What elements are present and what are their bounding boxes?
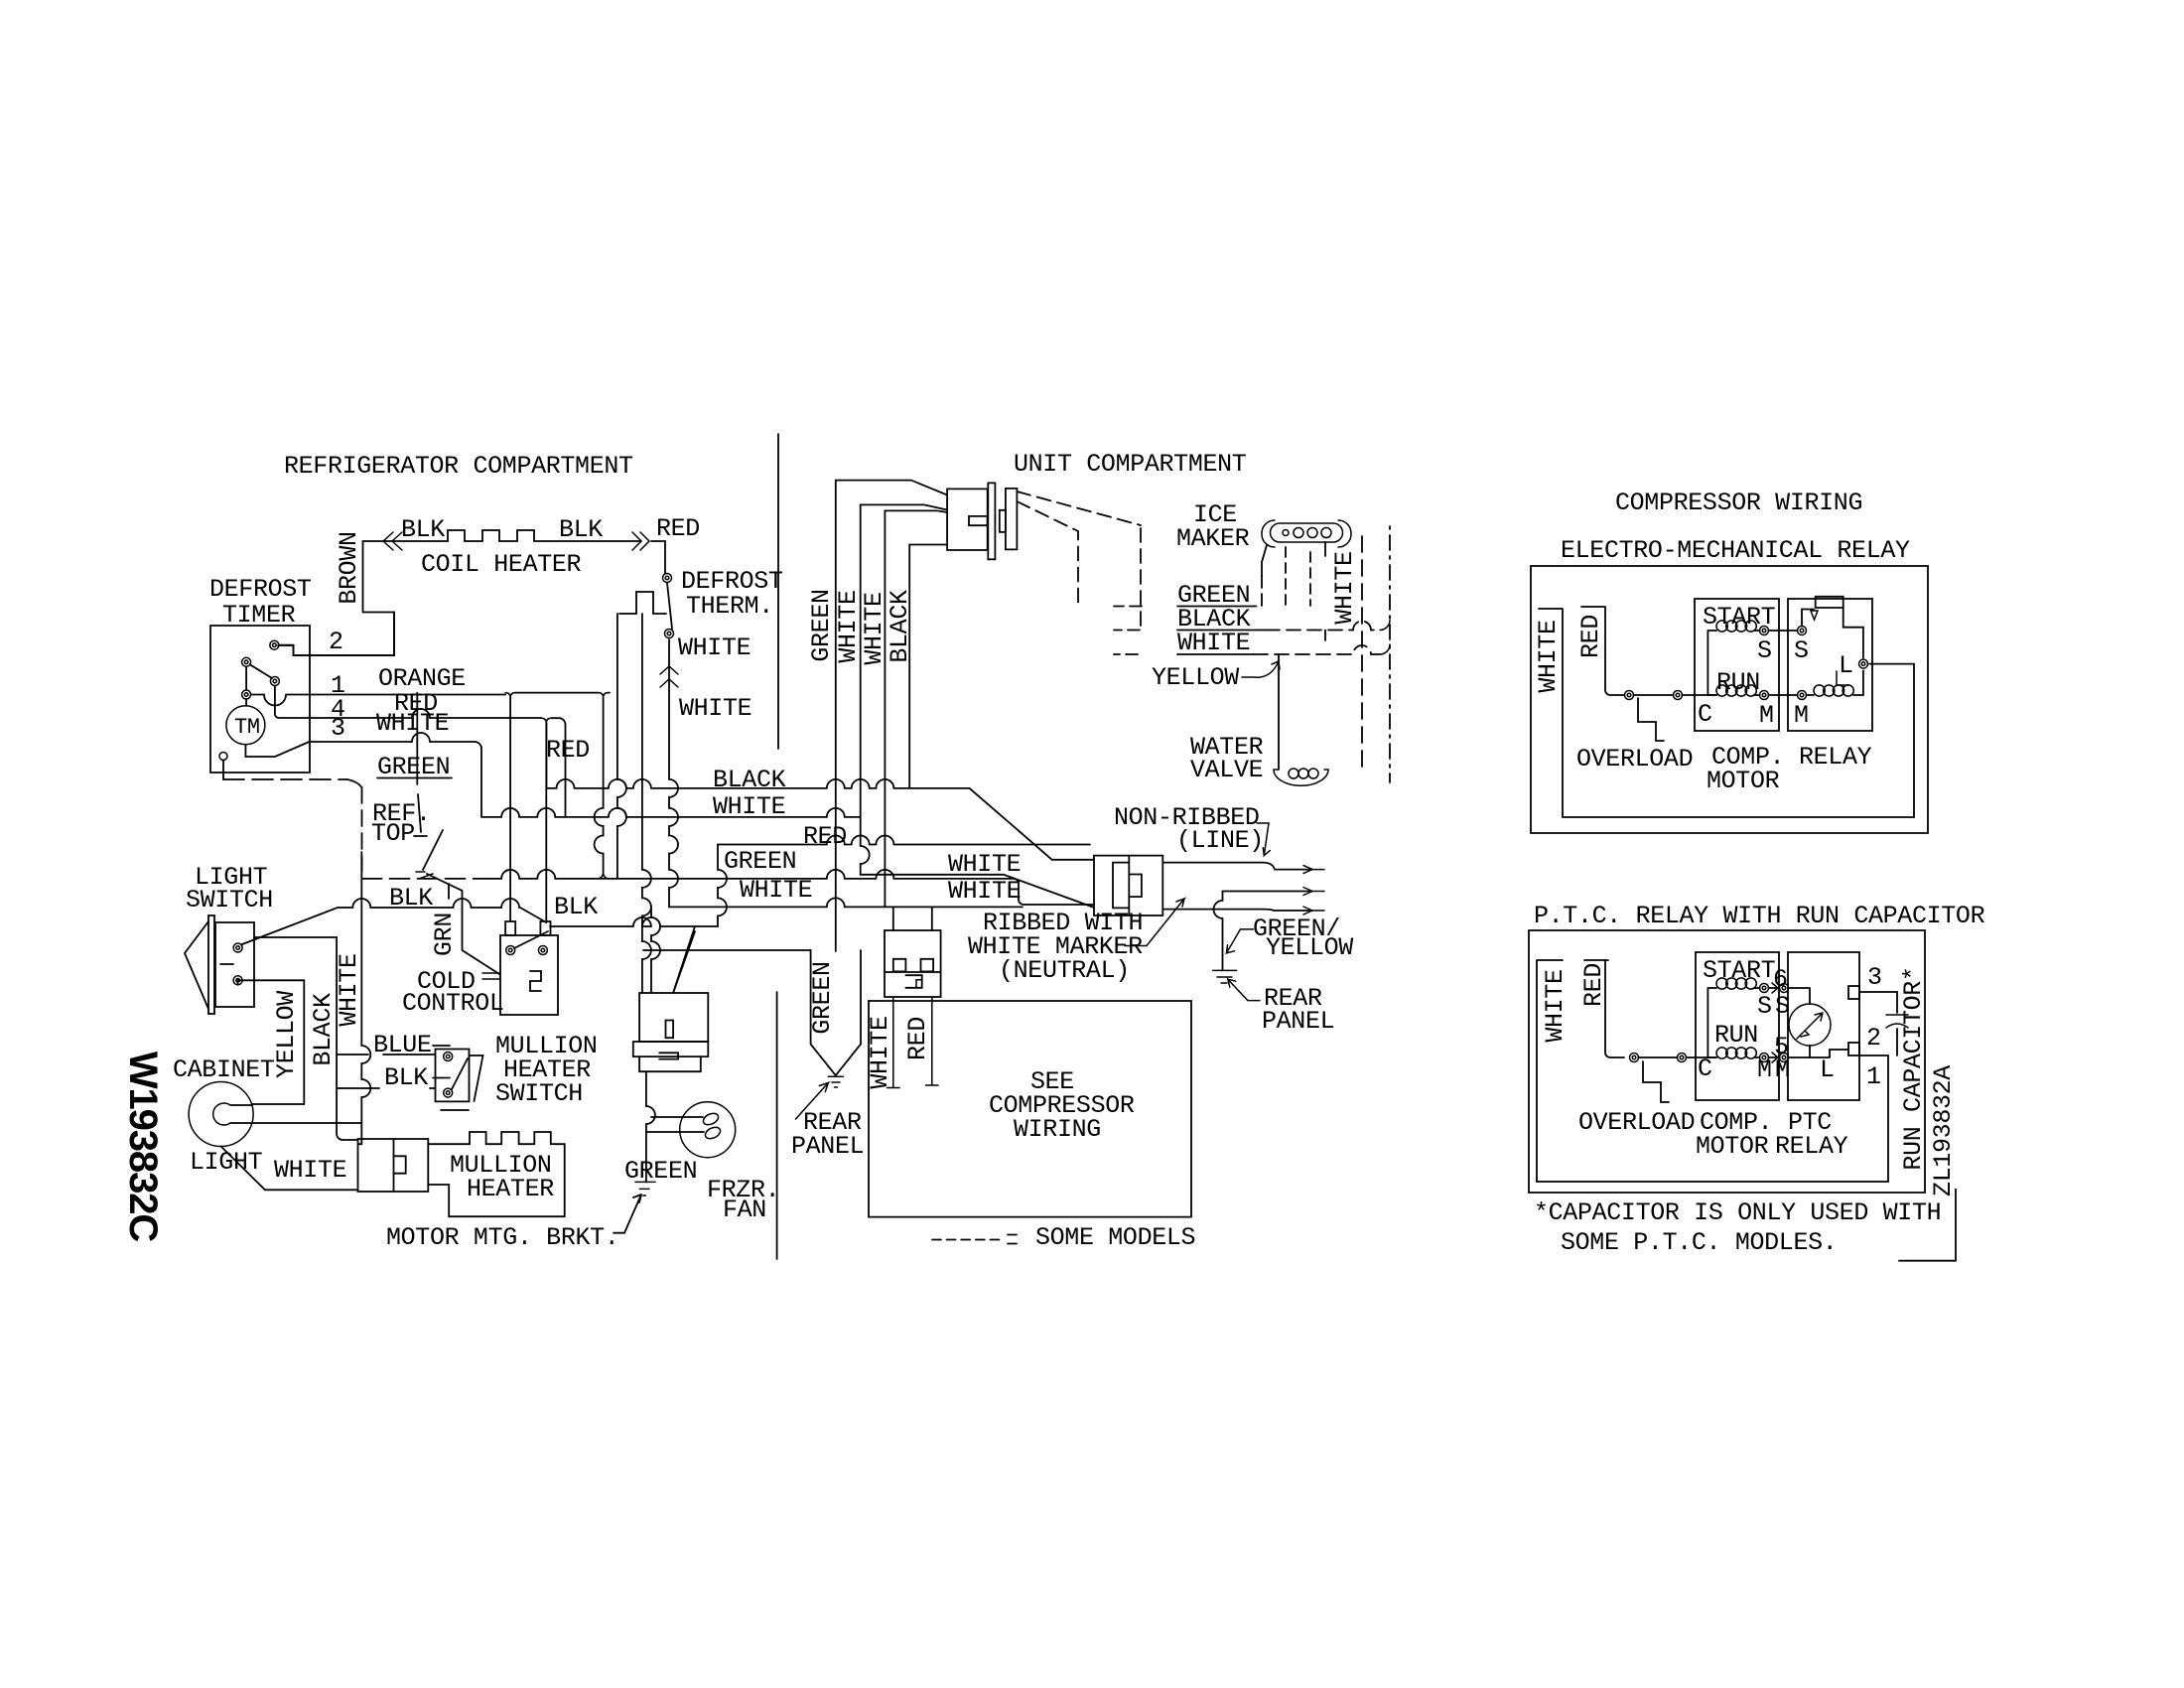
svg-text:M: M [1759,701,1774,730]
svg-text:RUN: RUN [1714,1021,1758,1050]
svg-text:3: 3 [1867,963,1882,992]
svg-text:DEFROST: DEFROST [209,575,312,604]
svg-text:ZL193832A: ZL193832A [1929,1065,1958,1196]
svg-text:GREEN: GREEN [624,1157,697,1186]
svg-text:COIL HEATER: COIL HEATER [421,550,582,579]
svg-text:SOME P.T.C. MODLES.: SOME P.T.C. MODLES. [1561,1228,1837,1257]
svg-text:FAN: FAN [723,1196,766,1224]
svg-text:BLK: BLK [401,515,445,544]
svg-text:GREEN: GREEN [724,847,796,876]
svg-text:WHITE: WHITE [1541,969,1570,1042]
svg-text:2: 2 [329,628,343,656]
svg-text:RED: RED [1576,615,1605,658]
svg-text:2: 2 [1866,1024,1881,1053]
svg-text:HEATER: HEATER [467,1175,554,1203]
svg-text:ELECTRO-MECHANICAL RELAY: ELECTRO-MECHANICAL RELAY [1561,536,1910,565]
svg-text:(NEUTRAL): (NEUTRAL) [999,956,1130,985]
svg-text:VALVE: VALVE [1190,756,1263,784]
svg-text:BLK: BLK [554,893,598,921]
svg-text:SOME MODELS: SOME MODELS [1035,1223,1195,1252]
svg-text:1: 1 [1866,1062,1881,1091]
svg-text:THERM.: THERM. [686,592,773,621]
svg-text:RUN CAPACITOR*: RUN CAPACITOR* [1899,966,1928,1170]
svg-text:TM: TM [234,715,260,740]
svg-text:(LINE): (LINE) [1176,826,1264,855]
svg-text:PANEL: PANEL [791,1132,864,1161]
svg-text:BLK: BLK [384,1063,428,1092]
svg-text:GREEN: GREEN [807,589,836,661]
svg-text:TOP: TOP [371,819,415,848]
svg-text:P.T.C. RELAY WITH RUN CAPACITO: P.T.C. RELAY WITH RUN CAPACITOR [1534,902,1985,930]
svg-text:S: S [1757,992,1772,1021]
svg-text:REFRIGERATOR COMPARTMENT: REFRIGERATOR COMPARTMENT [284,452,633,481]
svg-text:GRN: GRN [430,913,459,956]
svg-text:YELLOW: YELLOW [1266,933,1353,962]
svg-text:L: L [1839,651,1853,680]
svg-text:MOTOR: MOTOR [1706,767,1780,795]
svg-text:WHITE: WHITE [274,1156,346,1185]
svg-text:COMPRESSOR WIRING: COMPRESSOR WIRING [1615,489,1862,517]
svg-text:WHITE: WHITE [678,633,751,662]
svg-text:YELLOW: YELLOW [272,991,301,1078]
svg-text:S: S [1794,636,1809,665]
svg-text:M: M [1794,701,1809,730]
svg-text:WHITE: WHITE [1177,629,1250,657]
svg-text:PANEL: PANEL [1262,1007,1334,1036]
svg-text:RED: RED [1579,963,1608,1007]
svg-text:MOTOR MTG. BRKT.: MOTOR MTG. BRKT. [386,1223,618,1252]
svg-text:C: C [1698,700,1712,729]
svg-text:UNIT COMPARTMENT: UNIT COMPARTMENT [1014,450,1247,479]
svg-text:WHITE: WHITE [948,877,1021,906]
svg-text:RED: RED [546,736,590,765]
svg-text:W193832C: W193832C [121,1052,165,1242]
svg-text:WHITE: WHITE [834,590,863,662]
svg-text:CONTROL: CONTROL [402,989,504,1018]
svg-text:OVERLOAD: OVERLOAD [1576,745,1693,774]
svg-text:SWITCH: SWITCH [186,886,273,914]
svg-text:WHITE: WHITE [866,1016,894,1088]
svg-text:MAKER: MAKER [1176,524,1250,553]
svg-text:WHITE: WHITE [1330,551,1359,624]
svg-text:C: C [1698,1055,1712,1083]
svg-text:RED: RED [656,514,700,543]
svg-text:WIRING: WIRING [1014,1115,1101,1144]
svg-text:WHITE: WHITE [1534,620,1563,692]
svg-text:L: L [1820,1055,1835,1084]
svg-text:BLACK: BLACK [309,993,338,1066]
svg-text:START: START [1703,956,1776,985]
svg-text:OVERLOAD: OVERLOAD [1578,1108,1695,1137]
svg-text:WHITE: WHITE [679,694,751,723]
svg-text:WHITE: WHITE [335,953,363,1026]
svg-text:RELAY: RELAY [1799,743,1872,772]
svg-text:RELAY: RELAY [1775,1132,1848,1161]
svg-text:MOTOR: MOTOR [1696,1132,1769,1161]
svg-text:SWITCH: SWITCH [495,1079,583,1108]
svg-text:YELLOW: YELLOW [1152,663,1239,692]
svg-text:BLK: BLK [559,515,603,544]
svg-text:RED: RED [903,1017,932,1060]
svg-text:S: S [1757,636,1772,665]
svg-text:START: START [1703,603,1776,632]
svg-text:BLACK: BLACK [713,766,786,794]
svg-text:RUN: RUN [1716,668,1760,697]
svg-text:CABINET: CABINET [173,1055,275,1084]
svg-text:BROWN: BROWN [335,531,363,604]
svg-text:GREEN: GREEN [808,961,837,1034]
svg-text:WHITE: WHITE [740,876,812,905]
svg-text:*CAPACITOR IS ONLY USED WITH: *CAPACITOR IS ONLY USED WITH [1534,1198,1941,1227]
